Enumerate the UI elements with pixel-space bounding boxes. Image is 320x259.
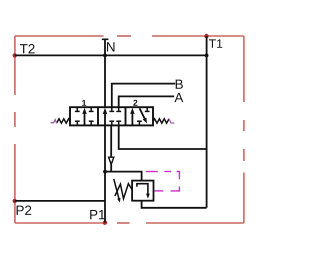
label position 2 [133,100,137,106]
position 2 blocked stub top [145,107,150,111]
wire to port A [119,96,175,107]
port dot P1 [103,221,107,225]
neutral blocked stub top A [116,107,121,111]
junction T1 x T2T1 [205,54,209,58]
port dot T2 [13,53,17,57]
label P2 [17,206,32,215]
neutral blocked stub top B [109,107,114,111]
neutral position flow arrow up (P to N) [103,108,107,126]
position 1 blocked stub bottom-right [89,121,94,125]
label B [176,80,183,89]
wire P riser valve to P1 [104,125,106,222]
port dot P2 [13,199,17,203]
label A [174,93,183,102]
wire relief feed [105,172,142,181]
wire P2 line [15,200,105,202]
position 2 diagonal flow arrow [140,108,147,123]
wire T1 riser [206,36,208,208]
enclosure border right (dashed red) [243,36,245,223]
label position 1 [82,100,86,106]
relief valve spring [115,184,132,199]
relief valve adjust arrow [114,179,121,203]
neutral blocked stub bottom B [109,121,114,125]
wire relief outlet to T1 riser [142,201,207,208]
label T1 [209,39,222,47]
port dot T1 [204,34,208,38]
wire drain with open arrow [110,125,112,157]
position 1 blocked stub top-right [89,107,94,111]
spring left magenta tail [51,120,57,124]
valve V1 divider right [125,107,127,125]
wire N down to valve [104,39,106,107]
position 1 blocked stub top-left [75,107,80,111]
position 2 blocked stub bottom [137,121,142,125]
enclosure border top (dashed red) [15,35,244,37]
pilot line (magenta dashed) return run [155,187,180,191]
port N terminal bar [102,38,109,40]
open arrowhead on drain [109,157,114,164]
valve V1 divider left [97,107,99,125]
wire drain tail [110,164,112,172]
pilot line (magenta dashed) top run [146,172,180,180]
position 1 flow arrow up [82,108,86,126]
enclosure border left (dashed red) [14,36,16,223]
enclosure border bottom (dashed red) [15,222,244,224]
spring left (valve) [57,119,71,123]
position 2 flow arrow up [130,108,134,126]
wire to port B [112,84,175,108]
wire T2 to T1 [15,54,207,56]
spring right (valve) [153,119,169,123]
spring right magenta tail [169,119,174,123]
relief valve RV body [132,181,153,201]
neutral blocked stub bottom A [116,121,121,125]
valve V1 body (3-position) [70,107,153,125]
junction relief tap [103,170,107,174]
label N [107,42,114,51]
relief valve internal path [137,184,150,199]
wire tank return to T1 riser [119,125,207,149]
label P1 [90,210,105,219]
position 1 blocked stub bottom-left [75,121,80,125]
label T2 [20,44,35,53]
junction N x T2T1 [103,54,107,58]
